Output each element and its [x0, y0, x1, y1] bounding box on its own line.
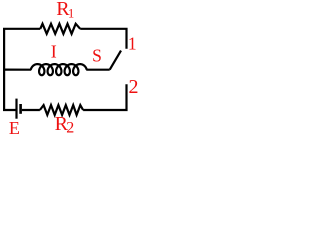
resistor R1 — [40, 24, 80, 34]
switch S arm (pivot to tip near contact 1) — [110, 51, 121, 70]
battery E short plate — [19, 104, 22, 114]
inductor coil — [31, 64, 87, 75]
wire battery to R2 — [22, 109, 40, 111]
svg-text:2: 2 — [129, 76, 139, 98]
wire bottom-right with corner up to contact 2 — [83, 84, 126, 110]
wire middle branch right — [86, 69, 109, 71]
svg-text:E: E — [9, 118, 20, 138]
svg-text:1: 1 — [68, 7, 74, 21]
svg-text:1: 1 — [128, 34, 137, 54]
wire left loop: top-left corner, left rail, bottom-left — [4, 29, 40, 110]
battery E long plate — [15, 99, 17, 119]
svg-text:2: 2 — [66, 120, 74, 137]
wire top-right with corner down to contact 1 — [80, 29, 126, 49]
svg-text:S: S — [92, 45, 102, 65]
resistor R2 — [40, 105, 83, 115]
wire middle branch left — [4, 68, 31, 70]
svg-text:I: I — [51, 42, 57, 62]
